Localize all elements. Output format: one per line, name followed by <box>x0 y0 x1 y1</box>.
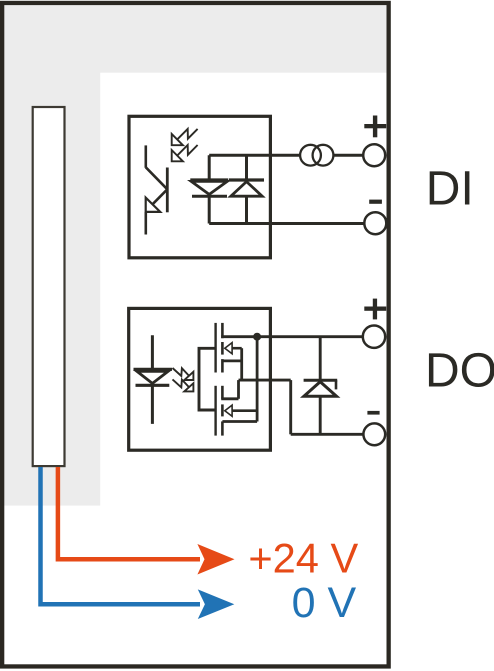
0 V wire (blue) <box>41 467 201 604</box>
DI - terminal <box>364 212 386 234</box>
+24 V arrowhead <box>197 544 234 575</box>
coupling circle 1 <box>300 145 333 166</box>
module frame <box>2 3 389 667</box>
DO minus output wire <box>291 433 364 436</box>
svg-text:0 V: 0 V <box>292 579 357 627</box>
zener diode Z1 <box>304 337 338 435</box>
DI input isolator box <box>129 116 270 257</box>
light arrow into phototransistor 2 <box>172 145 198 161</box>
junction dot <box>253 333 261 341</box>
backplane bus bar <box>33 107 65 466</box>
DI minus wire <box>209 222 364 225</box>
phototransistor T1 <box>146 145 168 234</box>
DO minus sign <box>367 411 379 415</box>
svg-text:+24 V: +24 V <box>248 534 358 581</box>
output LED D3 <box>134 335 173 424</box>
diode pair left leg <box>208 155 211 223</box>
DO output isolator box <box>129 308 271 450</box>
DO + terminal <box>363 326 385 348</box>
gate drive bus <box>199 348 216 410</box>
MOSFET Q1 (top) <box>216 323 242 380</box>
module body shading <box>4 5 389 506</box>
0 V arrowhead <box>198 589 235 619</box>
feedback drop wire <box>256 337 259 422</box>
DO plus sign <box>364 299 386 320</box>
light arrow into phototransistor 1 <box>172 129 198 145</box>
input LED D2 (cathode up) <box>229 180 264 196</box>
DI + terminal <box>363 144 385 166</box>
light arrow out of LED 1 <box>173 368 194 380</box>
svg-text:DO: DO <box>425 344 494 397</box>
DI plus sign <box>364 116 386 138</box>
input LED D1 (cathode down) <box>190 180 228 196</box>
source middle rail <box>239 379 291 382</box>
MOSFET Q2 (bottom) <box>216 380 258 436</box>
DI plus wire <box>209 154 363 157</box>
DO plus output wire <box>221 335 362 338</box>
+24 V wire (red) <box>58 467 200 559</box>
DO - terminal <box>363 423 385 445</box>
rail drop wire <box>289 380 292 434</box>
diode pair middle leg <box>245 155 248 223</box>
DI minus sign <box>369 200 382 204</box>
coupling circle 2 <box>313 145 334 166</box>
light arrow out of LED 2 <box>173 379 194 391</box>
svg-text:DI: DI <box>426 162 474 215</box>
